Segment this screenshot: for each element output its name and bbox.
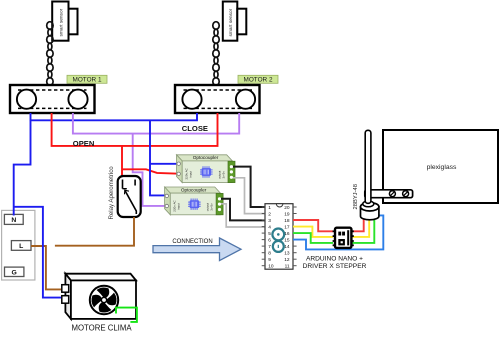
svg-text:G: G — [12, 269, 17, 276]
svg-text:20: 20 — [284, 205, 290, 211]
wire red OPEN line — [52, 113, 218, 146]
svg-text:3: 3 — [268, 218, 271, 224]
svg-text:9: 9 — [268, 257, 271, 263]
svg-text:Relay Aperometrico: Relay Aperometrico — [108, 166, 115, 220]
label ARDUINO NANO + DRIVER X STEPPER — [303, 255, 367, 270]
driver chip U4 — [333, 228, 354, 248]
smart sensor 1 — [52, 2, 77, 41]
svg-text:15: 15 — [284, 238, 290, 244]
wire red to relay — [121, 146, 123, 177]
svg-text:2: 2 — [268, 211, 271, 217]
svg-text:smart sensor: smart sensor — [228, 8, 234, 36]
svg-text:Optocoupler: Optocoupler — [181, 187, 207, 192]
svg-text:4: 4 — [268, 225, 271, 231]
motor M2 — [175, 85, 260, 113]
terminal G — [5, 267, 24, 276]
wire green arduino pin16 to driver — [293, 233, 333, 243]
svg-text:6: 6 — [268, 238, 271, 244]
wire brown relay to L wire — [55, 217, 134, 246]
terminal frame — [2, 210, 35, 280]
wire green driver to stepper — [351, 216, 374, 243]
optocoupler U1 — [177, 155, 236, 183]
svg-text:MOTORE CLIMA: MOTORE CLIMA — [71, 324, 132, 333]
svg-text:input: input — [177, 203, 181, 210]
wire red arduino pin18 to driver — [293, 220, 333, 231]
svg-text:input: input — [189, 171, 193, 178]
svg-text:CONNECTION: CONNECTION — [172, 239, 212, 245]
svg-text:3v-5v: 3v-5v — [210, 203, 214, 211]
terminal L — [11, 241, 31, 251]
chain 1 — [47, 22, 53, 86]
wire black opto1 to arduino pin1 — [233, 167, 265, 207]
svg-text:N: N — [11, 217, 16, 224]
svg-text:plexiglass: plexiglass — [427, 164, 457, 171]
wire green clima — [116, 308, 137, 322]
wire brown L to clima — [31, 246, 61, 289]
clima unit MOTORE CLIMA — [62, 274, 136, 333]
svg-text:17: 17 — [284, 225, 290, 231]
svg-text:10: 10 — [268, 264, 274, 270]
stepper motor 28BYJ-48 — [353, 184, 379, 220]
wire gray opto1 to arduino pin2 — [233, 178, 265, 214]
connection arrow — [153, 238, 241, 261]
svg-text:CLOSE: CLOSE — [182, 124, 208, 133]
svg-text:MOTOR 1: MOTOR 1 — [73, 77, 102, 84]
optocoupler U2 — [165, 187, 224, 215]
wire gray opto2 to arduino pin4 — [221, 204, 265, 227]
svg-text:13: 13 — [284, 251, 290, 257]
svg-text:18: 18 — [284, 218, 290, 224]
motor M1 — [10, 85, 95, 113]
svg-text:L: L — [19, 243, 23, 250]
svg-text:MOTOR 2: MOTOR 2 — [244, 77, 273, 84]
svg-text:19: 19 — [284, 211, 290, 217]
wire blue mains bus (motor1-motor2) — [31, 113, 198, 120]
bracket arm with screws — [365, 190, 413, 198]
svg-text:7: 7 — [268, 244, 271, 250]
wire yellow arduino pin17 to driver — [293, 227, 333, 237]
wire violet CLOSE line — [73, 113, 239, 134]
stepper shaft — [365, 130, 371, 203]
smart sensor 2 — [223, 2, 247, 41]
svg-text:smart sensor: smart sensor — [59, 8, 65, 36]
wire violet to optocoupler 2 — [133, 134, 167, 206]
wire red to optocoupler 1 — [122, 169, 179, 173]
svg-text:Optocoupler: Optocoupler — [193, 155, 219, 160]
label MOTOR 2 — [238, 75, 278, 83]
plexiglass panel — [383, 130, 498, 203]
svg-text:ARDUINO NANO +: ARDUINO NANO + — [306, 255, 363, 262]
relay Relay Aperometrico — [108, 166, 141, 220]
svg-text:1: 1 — [268, 205, 271, 211]
svg-text:5: 5 — [268, 231, 271, 237]
wire blue arduino pin15 to stepper — [293, 215, 383, 249]
label MOTOR 1 — [67, 75, 107, 83]
arduino nano U3 — [262, 204, 297, 270]
svg-text:11: 11 — [285, 264, 290, 270]
wire yellow driver to stepper — [351, 217, 369, 237]
wire blue branch to optocouplers — [150, 120, 179, 195]
terminal N — [4, 214, 23, 224]
svg-text:28BYJ-48: 28BYJ-48 — [353, 184, 359, 209]
wire black opto2 to arduino pin3 — [221, 199, 265, 221]
svg-text:3v-5v: 3v-5v — [222, 171, 226, 179]
svg-text:8: 8 — [268, 251, 271, 257]
wire red driver to stepper — [351, 216, 363, 231]
chain 2 — [213, 22, 219, 86]
svg-text:14: 14 — [284, 244, 290, 250]
svg-text:12: 12 — [284, 257, 290, 263]
svg-text:OPEN: OPEN — [73, 139, 95, 148]
svg-text:DRIVER X STEPPER: DRIVER X STEPPER — [303, 263, 367, 270]
wire blue mains to N and clima — [14, 120, 61, 297]
